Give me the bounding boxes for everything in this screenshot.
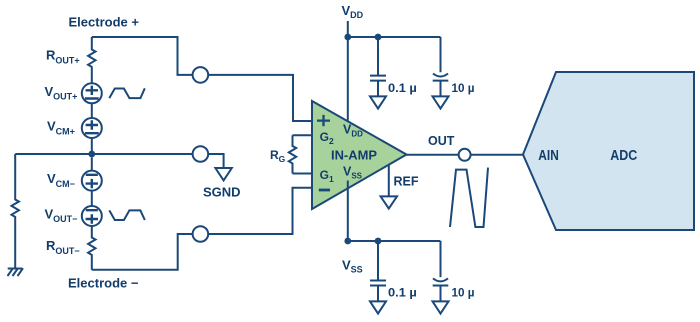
ground SGND — [215, 168, 231, 180]
wire G1 pin — [293, 173, 313, 175]
svg-text:VCM+: VCM+ — [47, 119, 75, 137]
node VDD junction 2 — [375, 34, 382, 41]
svg-text:VOUT−: VOUT− — [45, 206, 78, 224]
ground C1 — [370, 96, 386, 108]
svg-text:AIN: AIN — [538, 148, 559, 164]
capacitor C3 0.1u bottom — [370, 241, 386, 301]
svg-text:VOUT+: VOUT+ — [45, 84, 78, 102]
wire electrode- bottom run — [92, 234, 193, 270]
capacitor C2 10u top — [433, 37, 449, 96]
node VSS junction 2 — [375, 238, 382, 245]
ground C4 — [433, 301, 449, 313]
svg-text:SGND: SGND — [203, 185, 241, 200]
wire connector to -input — [208, 188, 312, 234]
ground C3 — [370, 301, 386, 313]
capacitor C1 0.1u top — [370, 37, 386, 96]
op-amp U1 IN-AMP body — [312, 101, 407, 209]
source VOUT- — [82, 206, 102, 226]
svg-text:0.1 µ: 0.1 µ — [388, 285, 417, 299]
svg-text:10 µ: 10 µ — [452, 285, 475, 299]
svg-text:RG: RG — [270, 148, 286, 164]
op-amp minus input mark — [319, 189, 330, 192]
capacitor C4 10u bottom — [433, 241, 449, 301]
resistor left bias — [12, 154, 19, 269]
waveform OUT — [450, 168, 488, 227]
node connector circle (SGND lead) — [193, 146, 209, 162]
wire VDD rail — [348, 36, 441, 38]
wire electrode+ top run — [92, 37, 193, 75]
ground earth (left) — [8, 268, 24, 276]
svg-text:VDD: VDD — [342, 3, 364, 20]
svg-text:REF: REF — [394, 175, 419, 189]
wire VCM+ to junction — [91, 138, 93, 154]
waveform VOUT- — [109, 210, 145, 220]
svg-text:Electrode −: Electrode − — [68, 276, 139, 291]
svg-text:IN-AMP: IN-AMP — [331, 148, 377, 162]
svg-text:VSS: VSS — [342, 258, 363, 275]
wire VDD vertical — [347, 21, 349, 122]
wire mid horizontal run to SGND connector — [15, 153, 192, 155]
wire OUT to AIN — [470, 154, 523, 156]
svg-text:ADC: ADC — [610, 148, 637, 164]
source VCM+ — [82, 118, 102, 138]
node connector circle (electrode+ lead) — [193, 67, 209, 83]
svg-text:OUT: OUT — [428, 134, 455, 148]
node VSS junction 1 — [344, 238, 351, 245]
resistor RG — [289, 135, 296, 173]
wire VSS rail — [348, 240, 441, 242]
source VCM- — [82, 171, 102, 191]
svg-text:ROUT−: ROUT− — [46, 238, 80, 256]
wire junction to VCM- — [91, 157, 93, 170]
ground C2 — [433, 96, 449, 108]
op-amp plus input mark — [317, 115, 330, 126]
wire SGND stub — [208, 154, 223, 168]
node junction mid-left — [88, 151, 95, 158]
svg-text:10 µ: 10 µ — [452, 81, 475, 95]
wire VCM- to VOUT- — [91, 191, 93, 206]
svg-text:0.1 µ: 0.1 µ — [388, 81, 417, 95]
svg-text:ROUT+: ROUT+ — [46, 48, 80, 66]
wire VOUT+ to VCM+ — [91, 103, 93, 118]
node VDD junction 1 — [344, 34, 351, 41]
svg-text:VCM−: VCM− — [47, 171, 75, 189]
node connector circle OUT — [459, 149, 471, 161]
resistor ROUT+ — [88, 37, 95, 83]
node connector circle (electrode- lead) — [193, 226, 209, 242]
wire VSS vertical — [347, 181, 349, 242]
wire connector to +input — [208, 75, 312, 121]
source VOUT+ — [82, 83, 102, 103]
ground REF — [381, 196, 397, 208]
resistor ROUT- — [88, 226, 95, 270]
svg-text:Electrode +: Electrode + — [69, 15, 140, 30]
ADC U2 body — [523, 72, 694, 230]
waveform VOUT+ — [109, 88, 145, 98]
wire G2 pin — [293, 134, 313, 136]
wire REF stub — [388, 165, 390, 197]
wire OUT — [407, 154, 459, 156]
